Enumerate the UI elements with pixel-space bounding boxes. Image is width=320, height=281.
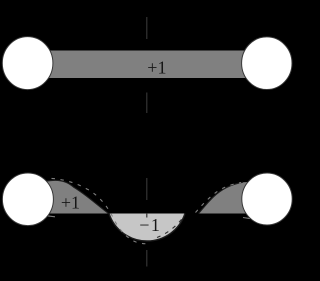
left hump top outline	[36, 180, 109, 213]
right hump top outline	[199, 182, 244, 213]
bottom dashed center line (segment crossing axis into trough)	[146, 213, 148, 218]
small dashed tail near bottom-left circle	[47, 216, 55, 217]
bottom dashed center line (below trough)	[146, 250, 148, 267]
top dashed center line (upper segment)	[146, 17, 148, 39]
right positive hump (dark gray)	[199, 182, 259, 214]
bottom dashed center line (upper segment)	[146, 178, 148, 200]
left positive hump (dark gray)	[36, 180, 109, 213]
bottom-left atom circle	[2, 173, 53, 226]
dashed orbital arc above right hump	[196, 183, 242, 213]
dashed orbital arc above left hump into trough	[52, 178, 149, 243]
top-right atom circle	[242, 37, 292, 90]
dashed orbital arc inside trough right tip (dark on gray)	[157, 215, 185, 238]
svg-text:+1: +1	[61, 192, 80, 212]
svg-text:+1: +1	[147, 58, 166, 78]
central negative trough (light gray)	[109, 214, 185, 242]
small dashed tail near bottom-right circle	[243, 218, 250, 219]
top-left atom circle	[2, 37, 53, 90]
svg-text:−1: −1	[139, 215, 161, 235]
top bonding bar +1	[27, 51, 267, 79]
top dashed center line (lower segment)	[146, 93, 148, 114]
trough bottom outline	[109, 214, 185, 242]
bottom-right atom circle	[242, 173, 292, 225]
